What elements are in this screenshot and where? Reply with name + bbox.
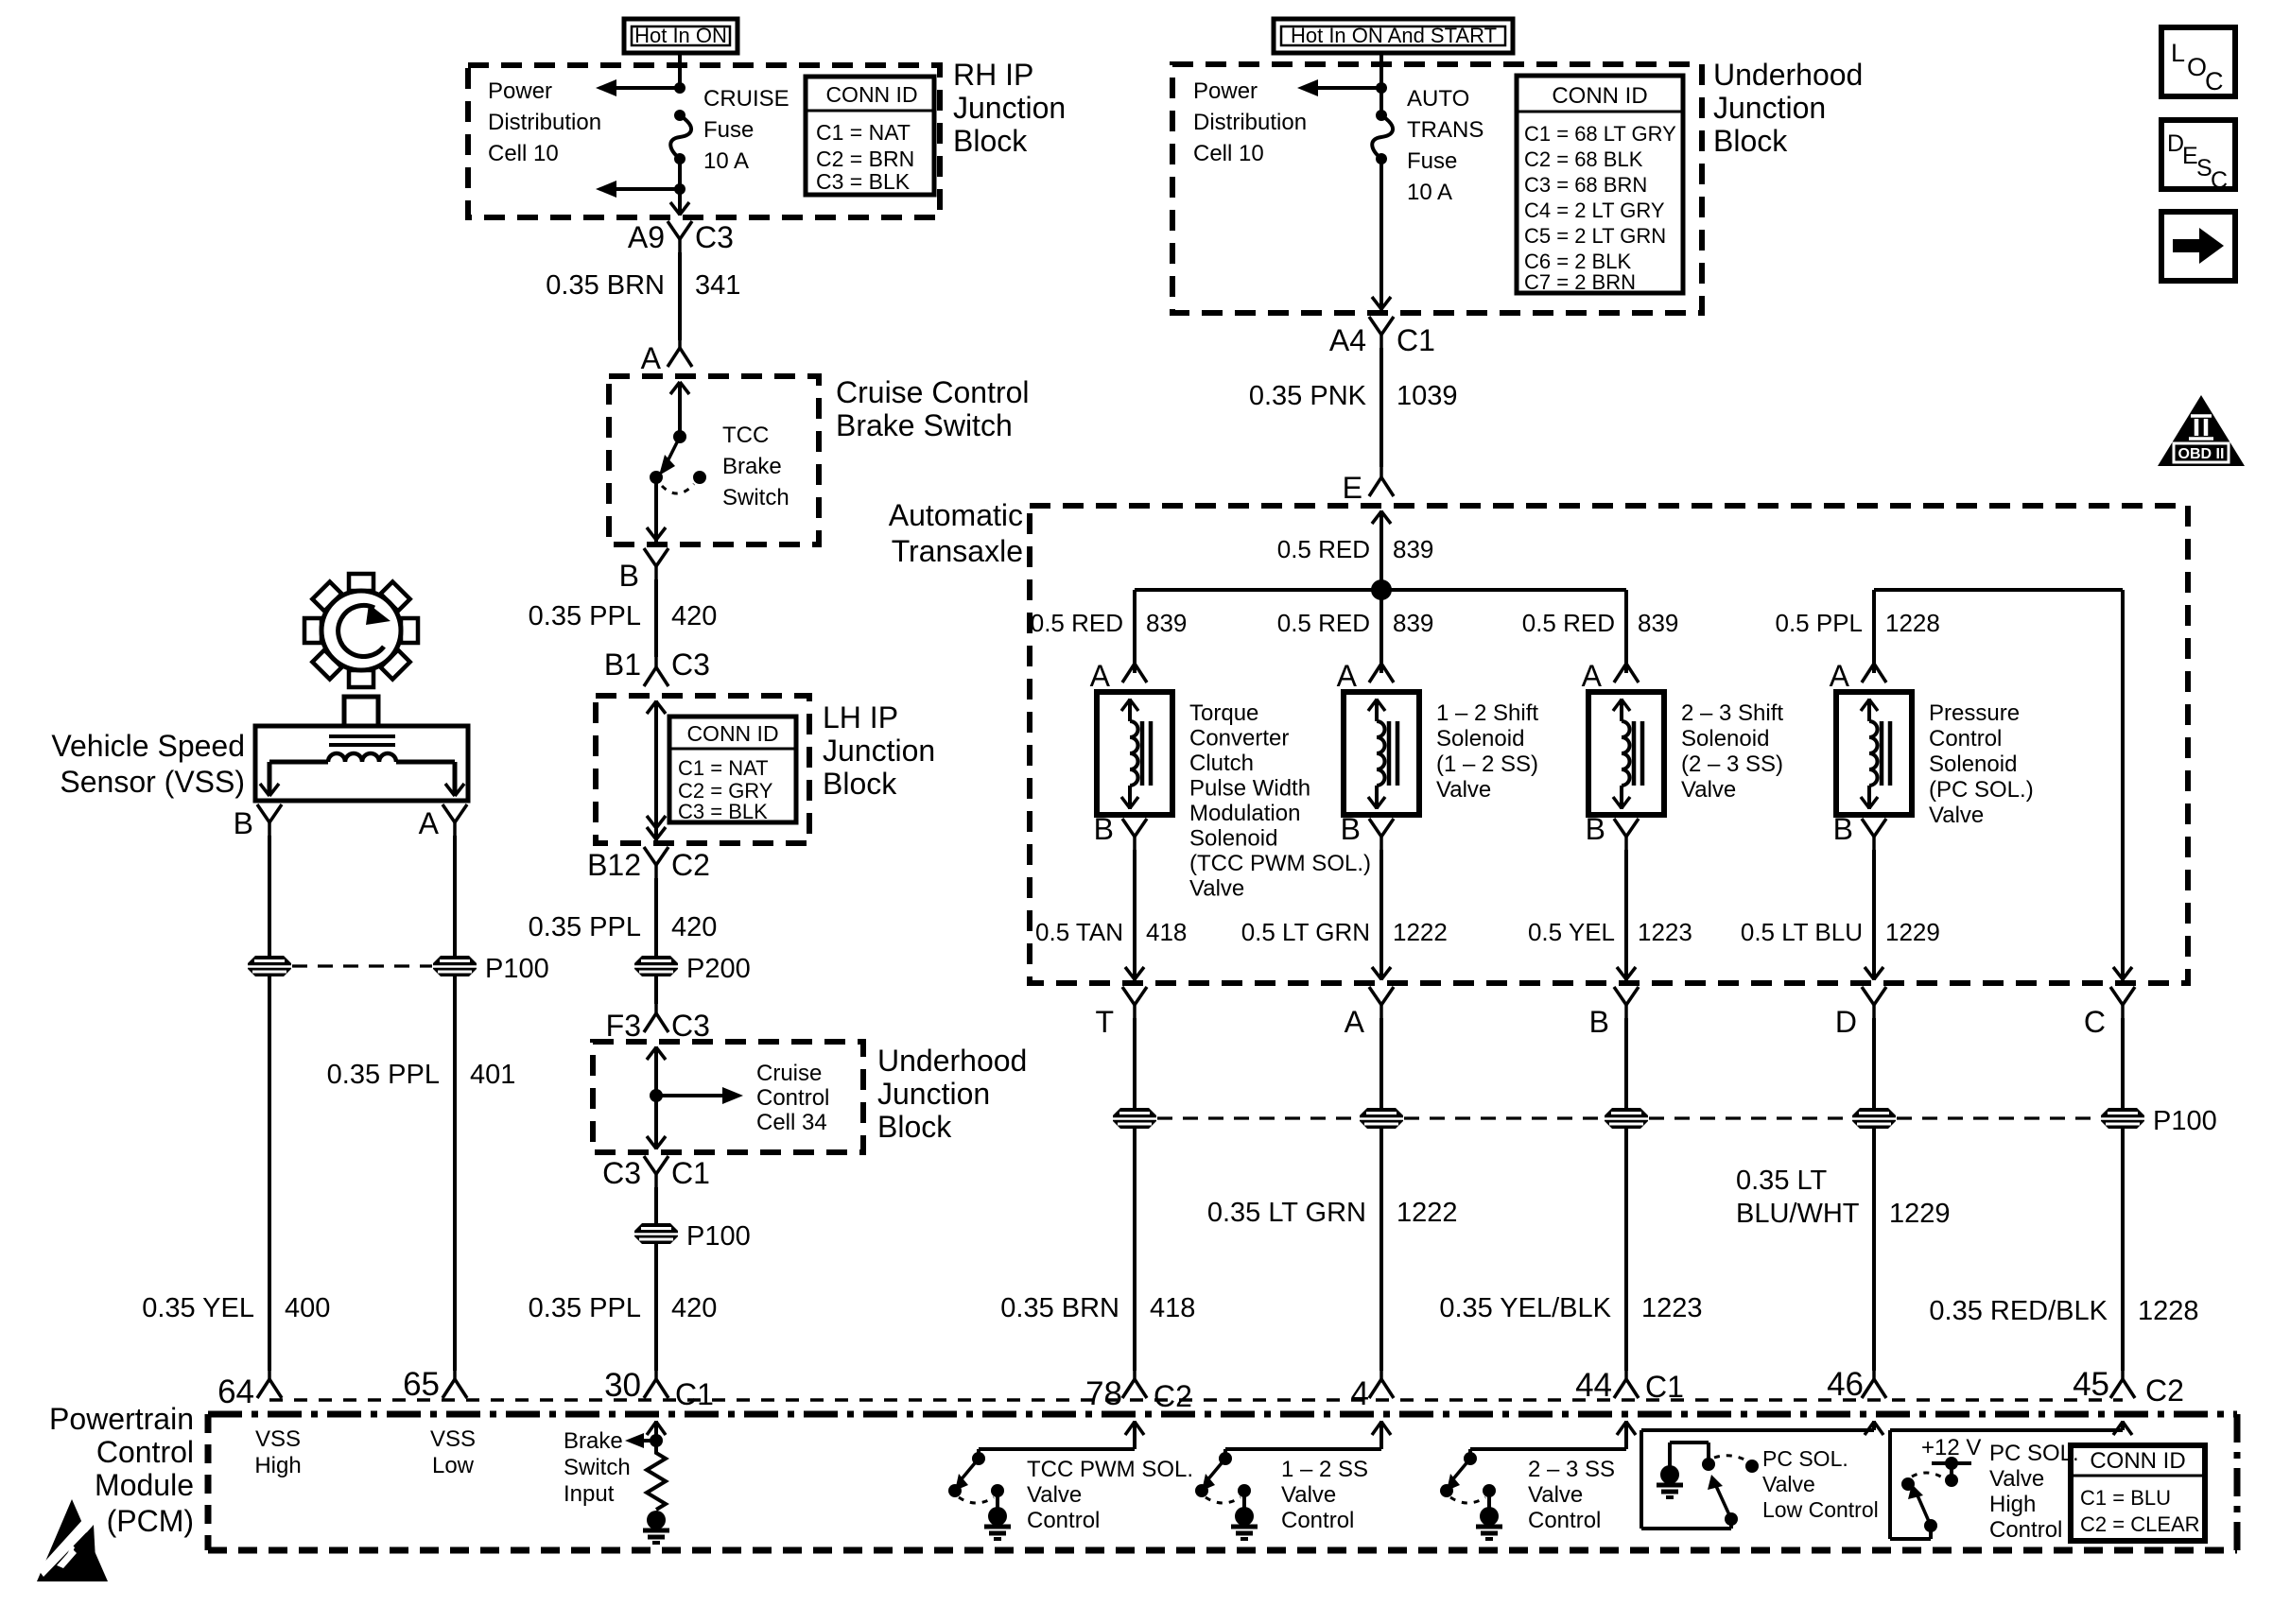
wire: pin E to splice (0.5 RED 839) — [1372, 510, 1391, 590]
svg-text:RH IP: RH IP — [953, 58, 1033, 92]
ESD sensitivity symbol — [37, 1499, 108, 1581]
svg-text:P100: P100 — [686, 1221, 751, 1252]
label: Power Distribution Cell 10 (right) — [1193, 78, 1307, 166]
svg-text:C: C — [2084, 1005, 2106, 1039]
svg-text:2 – 3 SS: 2 – 3 SS — [1528, 1457, 1615, 1482]
svg-text:0.35 PPL: 0.35 PPL — [327, 1060, 440, 1090]
svg-text:839: 839 — [1146, 609, 1187, 637]
label: P100 (VSS splices) — [485, 954, 549, 984]
VSS internal wires — [260, 762, 464, 796]
PCM driver: PC SOL. valve low control — [1641, 1421, 1883, 1529]
fuse CRUISE 10 A — [670, 110, 691, 164]
svg-text:(2 – 3 SS): (2 – 3 SS) — [1681, 752, 1783, 777]
svg-text:Sensor (VSS): Sensor (VSS) — [60, 765, 245, 799]
label: conn C3 (underhood jb) — [671, 1009, 710, 1043]
svg-text:C3: C3 — [602, 1156, 641, 1190]
svg-text:C: C — [2205, 67, 2224, 95]
arrow: wire into pin A (inside brake switch box) — [670, 382, 689, 437]
svg-text:PC SOL.: PC SOL. — [1762, 1446, 1848, 1471]
svg-text:P100: P100 — [2153, 1106, 2217, 1136]
label: +12 V — [1921, 1435, 1981, 1460]
svg-text:Vehicle Speed: Vehicle Speed — [51, 729, 245, 763]
PCM input: brake switch input — [625, 1421, 666, 1448]
svg-text:Module: Module — [95, 1468, 194, 1502]
Automatic Transaxle dashed box — [1030, 506, 2188, 983]
svg-text:L: L — [2171, 39, 2185, 67]
svg-text:Brake: Brake — [722, 454, 782, 479]
wire: transaxle pin A to splice P100 — [1379, 1018, 1383, 1108]
svg-text:Power: Power — [1193, 78, 1258, 104]
pin C (transaxle) — [2084, 987, 2135, 1039]
svg-text:Control: Control — [1989, 1517, 2062, 1543]
PCM pin 4 — [1351, 1364, 1394, 1412]
wire: switch output to box exit — [647, 477, 666, 542]
wire: circuit 1229 to PCM pin 46 — [1872, 1129, 1876, 1371]
svg-text:(TCC PWM SOL.): (TCC PWM SOL.) — [1189, 851, 1371, 876]
svg-text:B: B — [1833, 812, 1853, 846]
arrow: feed to other circuits (upper) — [596, 79, 680, 96]
label: Brake Switch Input — [564, 1428, 631, 1507]
svg-text:1223: 1223 — [1641, 1293, 1703, 1323]
svg-text:0.35 LT GRN: 0.35 LT GRN — [1207, 1198, 1366, 1228]
svg-text:Cell 34: Cell 34 — [756, 1110, 827, 1135]
VSS core lines — [329, 736, 395, 745]
junction dot: RED 839 splice — [1371, 579, 1392, 600]
svg-text:C1 = 68 LT GRY: C1 = 68 LT GRY — [1524, 122, 1676, 146]
pin T (transaxle) — [1095, 987, 1147, 1039]
label: 0.35 PPL 420 (lower) — [529, 1293, 718, 1323]
svg-text:Distribution: Distribution — [488, 110, 601, 135]
Vehicle Speed Sensor box — [255, 726, 468, 801]
svg-text:Junction: Junction — [877, 1077, 990, 1111]
label: 2-3 Shift Solenoid Valve — [1681, 700, 1783, 803]
label: 0.35 PPL 401 — [327, 1060, 516, 1090]
TCC brake switch movable arm — [659, 437, 680, 475]
VSS shaft — [344, 697, 378, 726]
ground (brake switch input) — [643, 1511, 669, 1543]
svg-text:0.5 TAN: 0.5 TAN — [1035, 918, 1123, 946]
wire: 1-2 solenoid B to pin A — [1372, 850, 1391, 980]
svg-text:C4 = 2 LT GRY: C4 = 2 LT GRY — [1524, 199, 1665, 222]
connector A4/C1 (underhood output) — [1369, 317, 1394, 348]
svg-text:C3 = BLK: C3 = BLK — [816, 169, 911, 194]
svg-text:F3: F3 — [606, 1009, 641, 1043]
branch wire: RED 839 to 1-2 solenoid — [1379, 590, 1383, 673]
wire: 2-3 solenoid B to pin B — [1617, 850, 1636, 980]
label: Torque Converter Clutch PWM Solenoid Valve — [1189, 700, 1371, 902]
power feed label box "Hot In ON" — [624, 19, 737, 53]
label: TCC Brake Switch — [722, 423, 789, 510]
wire: Hot In ON box to RH IP junction block — [678, 53, 682, 88]
label: VSS Low — [430, 1426, 476, 1478]
svg-text:400: 400 — [285, 1293, 330, 1323]
wire: P200 to underhood junction block — [654, 976, 658, 1004]
label: Cruise Control Cell 34 — [756, 1061, 829, 1135]
pin A (VSS) — [419, 804, 467, 840]
svg-text:High: High — [254, 1453, 301, 1478]
TCC brake switch throw contact — [693, 471, 706, 484]
svg-text:B: B — [1586, 812, 1605, 846]
svg-text:1039: 1039 — [1397, 381, 1458, 411]
svg-text:C2: C2 — [2145, 1373, 2184, 1408]
svg-text:Valve: Valve — [1528, 1482, 1583, 1508]
arrow: 1228 return at box edge — [2113, 967, 2132, 979]
svg-text:C2: C2 — [1154, 1379, 1192, 1413]
pin B (VSS) — [234, 804, 282, 840]
svg-text:A4: A4 — [1329, 323, 1366, 357]
svg-text:A: A — [641, 341, 662, 375]
svg-text:0.35 YEL: 0.35 YEL — [142, 1293, 254, 1323]
svg-text:Junction: Junction — [823, 734, 935, 768]
svg-text:Modulation: Modulation — [1189, 801, 1300, 826]
arrow: wire exits RH IP block down — [670, 202, 689, 215]
label: 0.35 BRN 341 — [546, 270, 740, 301]
connector F3/C3 (underhood jb input) — [644, 998, 668, 1032]
junction dot (RH IP feed) — [674, 82, 685, 94]
wire: circuit 420 to LH IP junction block — [654, 579, 658, 657]
svg-text:TRANS: TRANS — [1407, 117, 1484, 143]
svg-text:10 A: 10 A — [1407, 180, 1452, 205]
label: 0.35 YEL/BLK 1223 — [1439, 1293, 1702, 1323]
label: 0.5 RED 839 (TCC branch) — [1031, 609, 1188, 637]
svg-text:Valve: Valve — [1027, 1482, 1082, 1508]
wire: fuse to block exit — [678, 159, 682, 216]
svg-text:A: A — [1830, 659, 1850, 693]
svg-text:Solenoid: Solenoid — [1189, 826, 1277, 852]
wire through underhood jb — [647, 1046, 666, 1149]
branch wire: RED 839 to 2-3 solenoid — [1624, 590, 1628, 673]
solenoid: pressure control (coil) — [1830, 648, 1912, 850]
svg-text:A: A — [419, 806, 440, 840]
svg-text:C3 = 68 BRN: C3 = 68 BRN — [1524, 173, 1647, 197]
svg-text:Low Control: Low Control — [1762, 1497, 1879, 1522]
svg-text:Cruise: Cruise — [756, 1061, 822, 1086]
solenoid: 1-2 shift (coil) — [1337, 648, 1419, 850]
label: Pressure Control Solenoid (PC SOL.) Valve — [1929, 700, 2034, 828]
label: 0.35 YEL 400 — [142, 1293, 330, 1323]
label: Underhood Junction Block (middle) — [877, 1044, 1027, 1144]
label: PC SOL. Valve High Control — [1989, 1441, 2079, 1543]
PCM pin 78/C2 — [1085, 1364, 1192, 1413]
svg-text:Cruise Control: Cruise Control — [836, 375, 1030, 409]
svg-text:420: 420 — [671, 912, 717, 942]
svg-text:Valve: Valve — [1929, 803, 1984, 828]
PCM driver: TCC PWM SOL. valve control — [948, 1421, 1193, 1539]
wire: transaxle pin B to splice P100 — [1624, 1018, 1628, 1108]
svg-text:Powertrain: Powertrain — [49, 1402, 194, 1436]
svg-text:C5 = 2 LT GRN: C5 = 2 LT GRN — [1524, 224, 1666, 248]
svg-text:B: B — [619, 559, 639, 593]
CONN ID table (PCM) — [2071, 1445, 2205, 1541]
pin B (transaxle) — [1589, 987, 1639, 1039]
svg-text:Control: Control — [1281, 1508, 1354, 1533]
wire: circuit 420 to splice P200 — [654, 878, 658, 956]
label: P200 — [686, 954, 751, 984]
svg-text:65: 65 — [403, 1366, 440, 1403]
resistor (brake switch pull) — [647, 1441, 666, 1510]
svg-text:Solenoid: Solenoid — [1681, 726, 1769, 752]
svg-text:E: E — [1343, 471, 1362, 505]
RH IP Junction Block dashed box — [468, 65, 940, 217]
wire: circuit 420 to PCM pin 30 — [654, 1244, 658, 1371]
splice P100 (A column) — [1360, 1108, 1403, 1129]
svg-text:Control: Control — [1027, 1508, 1100, 1533]
svg-text:Block: Block — [1713, 124, 1788, 158]
svg-text:A: A — [1345, 1005, 1365, 1039]
label: 0.35 PPL 420 (upper) — [529, 601, 718, 631]
label: Cruise Control Brake Switch — [836, 375, 1030, 442]
svg-text:C2: C2 — [671, 848, 710, 882]
svg-text:Control: Control — [96, 1435, 194, 1469]
icon: DESC box — [2161, 120, 2235, 194]
svg-text:CONN ID: CONN ID — [825, 82, 917, 107]
svg-text:Converter: Converter — [1189, 726, 1289, 752]
label: AUTO TRANS Fuse 10 A — [1407, 86, 1484, 205]
svg-text:P200: P200 — [686, 954, 751, 984]
svg-text:CONN ID: CONN ID — [686, 721, 778, 746]
svg-text:Power: Power — [488, 78, 552, 104]
svg-text:C1: C1 — [675, 1377, 714, 1411]
label: 0.5 RED 839 (1-2 branch) — [1277, 609, 1434, 637]
splice tie line (bottom, dashed) — [1157, 1116, 2100, 1119]
svg-text:VSS: VSS — [430, 1426, 476, 1452]
wire: transaxle pin C to splice P100 — [2121, 1018, 2125, 1108]
svg-text:Transaxle: Transaxle — [892, 534, 1023, 568]
svg-text:30: 30 — [604, 1367, 641, 1404]
svg-text:0.5 RED: 0.5 RED — [1031, 609, 1123, 637]
svg-text:Control: Control — [1528, 1508, 1601, 1533]
PCM pin 46 — [1827, 1364, 1886, 1403]
wire: TCC solenoid B to pin T — [1125, 850, 1144, 980]
svg-text:Fuse: Fuse — [1407, 148, 1457, 174]
VSS pickup coil — [328, 753, 396, 762]
pin B (brake switch output) — [619, 548, 668, 593]
svg-text:2 – 3 Shift: 2 – 3 Shift — [1681, 700, 1783, 726]
label: Powertrain Control Module (PCM) — [49, 1402, 194, 1538]
label: conn C2 (LH IP) — [671, 848, 710, 882]
wire: transaxle pin D to splice P100 — [1872, 1018, 1876, 1108]
svg-text:Valve: Valve — [1189, 876, 1244, 902]
fuse AUTO TRANS 10 A — [1372, 110, 1393, 164]
svg-text:1 – 2 Shift: 1 – 2 Shift — [1436, 700, 1538, 726]
svg-text:C3: C3 — [671, 1009, 710, 1043]
svg-text:B1: B1 — [604, 648, 641, 682]
svg-text:0.35 BRN: 0.35 BRN — [1000, 1293, 1119, 1323]
svg-text:C2 = CLEAR: C2 = CLEAR — [2080, 1512, 2200, 1536]
arrow: feed to other circuits — [1297, 79, 1381, 96]
solenoid: TCC PWM (coil) — [1090, 648, 1172, 850]
CONN ID table (LH IP junction block) — [669, 717, 796, 823]
svg-text:1228: 1228 — [2138, 1296, 2199, 1326]
svg-text:4: 4 — [1351, 1375, 1369, 1412]
junction dot (underhood feed) — [1376, 82, 1387, 94]
svg-text:Solenoid: Solenoid — [1436, 726, 1524, 752]
wire: transaxle pin T to splice P100 — [1133, 1018, 1136, 1108]
wire: VSS high circuit 400 upper — [268, 836, 271, 956]
label: Automatic Transaxle — [889, 498, 1023, 568]
net: 0.5 PPL 1228 jumper — [1874, 590, 2123, 981]
svg-text:C7 = 2 BRN: C7 = 2 BRN — [1524, 270, 1636, 294]
svg-text:A: A — [1337, 659, 1358, 693]
svg-text:Brake Switch: Brake Switch — [836, 408, 1013, 442]
wire: fuse to block exit (right) — [1372, 159, 1391, 310]
VSS reluctor gear — [304, 574, 418, 687]
pin E (automatic transaxle) — [1343, 462, 1394, 505]
svg-text:B: B — [234, 806, 253, 840]
svg-text:0.35 PPL: 0.35 PPL — [529, 1293, 641, 1323]
svg-text:TCC: TCC — [722, 423, 769, 448]
svg-text:Distribution: Distribution — [1193, 110, 1307, 135]
svg-text:1228: 1228 — [1885, 609, 1940, 637]
svg-text:C1: C1 — [1397, 323, 1435, 357]
wire: circuit 1228 to PCM pin 45 — [2121, 1129, 2125, 1371]
Powertrain Control Module dashed box — [208, 1414, 2237, 1550]
label: Power Distribution Cell 10 — [488, 78, 601, 166]
svg-text:CONN ID: CONN ID — [1552, 83, 1647, 109]
svg-text:C3: C3 — [695, 220, 734, 254]
svg-text:AUTO: AUTO — [1407, 86, 1469, 112]
svg-text:PC SOL.: PC SOL. — [1989, 1441, 2079, 1466]
arrow: feed to other circuits (lower) — [596, 181, 680, 198]
label: P100 (middle column) — [686, 1221, 751, 1252]
label: 0.5 RED 839 (2-3 branch) — [1522, 609, 1679, 637]
wire: VSS low circuit 401 lower — [453, 976, 457, 1371]
pin A (cruise control brake switch) — [641, 333, 692, 375]
svg-text:T: T — [1095, 1005, 1114, 1039]
splice P100 (T column) — [1113, 1108, 1156, 1129]
PCM driver: 2-3 SS valve control — [1440, 1421, 1636, 1539]
svg-text:Valve: Valve — [1436, 777, 1491, 803]
TCC brake switch upper contact — [673, 430, 686, 443]
label: pin B1 — [604, 648, 641, 682]
wire: Hot In ON And START to fuse — [1379, 53, 1383, 115]
svg-text:0.5 RED: 0.5 RED — [1277, 609, 1370, 637]
svg-text:CONN ID: CONN ID — [2090, 1448, 2185, 1474]
svg-text:0.35 PNK: 0.35 PNK — [1249, 381, 1367, 411]
connector B12/C2 (LH IP output) — [644, 847, 668, 878]
svg-text:BLU/WHT: BLU/WHT — [1736, 1199, 1860, 1229]
svg-text:C2 = BRN: C2 = BRN — [816, 147, 914, 171]
connector B1/C3 (LH IP input) — [644, 652, 668, 686]
label: P100 (bottom row) — [2153, 1106, 2217, 1136]
svg-text:Cell 10: Cell 10 — [1193, 141, 1264, 166]
splice P100 (D column) — [1852, 1108, 1896, 1129]
svg-text:+12 V: +12 V — [1921, 1435, 1981, 1460]
svg-text:0.5 PPL: 0.5 PPL — [1775, 609, 1863, 637]
label: conn C1 — [1397, 323, 1435, 357]
wire: PC solenoid B to pin D — [1865, 850, 1883, 980]
svg-text:C1: C1 — [671, 1156, 710, 1190]
svg-text:1222: 1222 — [1397, 1198, 1458, 1228]
svg-text:Valve: Valve — [1762, 1472, 1815, 1496]
svg-text:0.5 LT BLU: 0.5 LT BLU — [1741, 918, 1863, 946]
Underhood Junction Block (cruise cell 34) dashed box — [593, 1042, 863, 1152]
PCM pin 65 — [403, 1364, 467, 1403]
svg-text:Cell 10: Cell 10 — [488, 141, 559, 166]
svg-text:0.35 PPL: 0.35 PPL — [529, 912, 641, 942]
svg-text:0.35 LT: 0.35 LT — [1736, 1166, 1827, 1196]
svg-text:418: 418 — [1146, 918, 1187, 946]
svg-text:1223: 1223 — [1638, 918, 1692, 946]
svg-text:839: 839 — [1393, 535, 1433, 563]
svg-text:OBD II: OBD II — [2178, 446, 2225, 462]
svg-text:P100: P100 — [485, 954, 549, 984]
label: RH IP Junction Block — [953, 58, 1066, 158]
label: pin F3 — [606, 1009, 641, 1043]
label: conn C1 (output) — [671, 1156, 710, 1190]
svg-text:Junction: Junction — [1713, 91, 1826, 125]
svg-text:C1 = NAT: C1 = NAT — [816, 120, 911, 145]
PCM driver: PC SOL. valve high control — [1890, 1421, 2132, 1539]
wire: VSS low circuit 401 upper — [453, 836, 457, 956]
svg-text:Switch: Switch — [564, 1455, 631, 1480]
wire: VSS high circuit 400 lower — [268, 976, 271, 1371]
svg-text:Valve: Valve — [1989, 1466, 2044, 1492]
Underhood Junction Block dashed box (top right) — [1172, 64, 1702, 313]
svg-text:C: C — [2211, 167, 2228, 194]
wire: circuit 1223 to PCM pin 44 — [1624, 1129, 1628, 1371]
svg-text:418: 418 — [1150, 1293, 1195, 1323]
label: conn C3 — [695, 220, 734, 254]
label: LH IP Junction Block — [823, 700, 935, 801]
svg-text:TCC PWM SOL.: TCC PWM SOL. — [1027, 1457, 1193, 1482]
svg-text:D: D — [1835, 1005, 1857, 1039]
label: PC SOL. Valve Low Control — [1762, 1446, 1879, 1522]
svg-text:A: A — [1582, 659, 1603, 693]
svg-text:401: 401 — [470, 1060, 515, 1090]
svg-text:Hot In ON: Hot In ON — [634, 24, 727, 47]
label: 1-2 Shift Solenoid Valve — [1436, 700, 1538, 803]
svg-text:Pressure: Pressure — [1929, 700, 2020, 726]
label: 0.35 PPL 420 (middle) — [529, 912, 718, 942]
label: 0.35 RED/BLK 1228 — [1929, 1296, 2198, 1326]
svg-text:78: 78 — [1085, 1375, 1122, 1412]
power feed label box "Hot In ON And START" — [1274, 19, 1513, 53]
svg-text:Control: Control — [1929, 726, 2002, 752]
label: pin B12 — [587, 848, 641, 882]
svg-text:Solenoid: Solenoid — [1929, 752, 2017, 777]
svg-text:B: B — [1589, 1005, 1609, 1039]
svg-text:C1: C1 — [1645, 1370, 1684, 1404]
svg-text:B: B — [1094, 812, 1114, 846]
svg-text:839: 839 — [1393, 609, 1433, 637]
label: 0.5 LT GRN 1222 — [1241, 918, 1448, 946]
label: Vehicle Speed Sensor (VSS) — [51, 729, 245, 799]
wire through LH IP block — [647, 700, 666, 840]
junction dot (cruise tap) — [650, 1089, 663, 1102]
svg-text:Fuse: Fuse — [703, 117, 754, 143]
svg-text:64: 64 — [217, 1373, 254, 1410]
connector C3/C1 (underhood jb output) — [644, 1156, 668, 1187]
label: 0.35 LT BLU/WHT 1229 — [1736, 1166, 1951, 1229]
svg-text:839: 839 — [1638, 609, 1678, 637]
label: 0.5 TAN 418 — [1035, 918, 1187, 946]
svg-text:Input: Input — [564, 1481, 615, 1507]
svg-text:C1 = BLU: C1 = BLU — [2080, 1486, 2171, 1510]
svg-text:10 A: 10 A — [703, 148, 749, 174]
label: pin A9 — [628, 220, 665, 254]
label: 0.35 BRN 418 — [1000, 1293, 1195, 1323]
svg-text:0.35 PPL: 0.35 PPL — [529, 601, 641, 631]
svg-text:0.35 RED/BLK: 0.35 RED/BLK — [1929, 1296, 2108, 1326]
splice P100 (middle column) — [634, 1223, 678, 1244]
pin D (transaxle) — [1835, 987, 1886, 1039]
svg-text:C3: C3 — [671, 648, 710, 682]
svg-text:0.5 YEL: 0.5 YEL — [1528, 918, 1615, 946]
svg-text:(PC SOL.): (PC SOL.) — [1929, 777, 2034, 803]
svg-text:B: B — [1341, 812, 1361, 846]
svg-text:1229: 1229 — [1889, 1199, 1951, 1229]
